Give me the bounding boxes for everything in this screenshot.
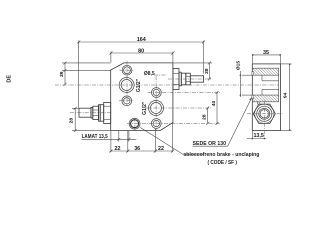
svg-text:Ø15: Ø15: [235, 61, 241, 71]
svg-text:DE: DE: [6, 75, 12, 83]
svg-text:28: 28: [69, 118, 75, 124]
svg-text:35: 35: [263, 50, 269, 56]
svg-text:sbloccofreno brake - unclaping: sbloccofreno brake - unclaping: [183, 152, 259, 158]
svg-text:29: 29: [59, 71, 65, 77]
svg-text:13,5: 13,5: [253, 133, 264, 139]
svg-text:28: 28: [202, 114, 208, 120]
svg-text:36: 36: [134, 146, 140, 152]
svg-text:22: 22: [115, 146, 121, 152]
svg-text:G1/2″: G1/2″: [136, 78, 142, 92]
svg-text:94: 94: [283, 92, 289, 98]
svg-text:80: 80: [138, 48, 144, 54]
svg-text:164: 164: [137, 37, 146, 43]
svg-text:40: 40: [211, 101, 217, 107]
svg-text:Ø8,5: Ø8,5: [144, 71, 155, 77]
svg-text:28: 28: [204, 68, 210, 74]
svg-text:22: 22: [158, 146, 164, 152]
svg-text:( CODE / SF ): ( CODE / SF ): [207, 160, 237, 166]
svg-text:G1/2″: G1/2″: [142, 101, 148, 115]
